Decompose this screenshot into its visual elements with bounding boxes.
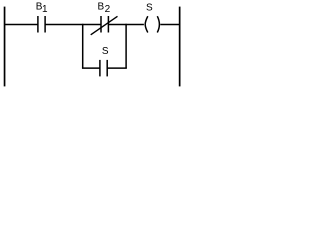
wire: coil S to right rail	[160, 24, 179, 26]
label B2	[98, 2, 111, 15]
branch wire: left vertical to contact S	[82, 67, 100, 69]
contact S right bar	[106, 60, 108, 77]
contact S left bar	[99, 60, 101, 77]
contact B2 left bar	[100, 16, 102, 33]
label B1	[36, 2, 48, 15]
left power rail	[4, 7, 6, 87]
contact B2 normally-closed slash	[91, 16, 118, 35]
branch left vertical wire	[82, 24, 84, 68]
svg-text:1: 1	[42, 4, 48, 15]
wire: contact B1 to contact B2 (through branch node)	[45, 24, 101, 26]
svg-text:S: S	[146, 3, 153, 14]
svg-text:B: B	[98, 2, 105, 13]
svg-text:S: S	[102, 46, 109, 57]
svg-text:2: 2	[105, 4, 111, 15]
wire: left rail to contact B1	[5, 24, 38, 26]
contact B2 right bar	[107, 16, 109, 33]
branch wire: contact S to right vertical	[107, 67, 127, 69]
wire: contact B2 to coil S (through branch node)	[108, 24, 143, 26]
contact B1 left bar	[37, 16, 39, 33]
coil S left parenthesis	[145, 16, 148, 32]
right power rail	[179, 7, 181, 87]
coil S right parenthesis	[157, 16, 159, 32]
branch right vertical wire	[125, 24, 127, 68]
contact B1 right bar	[44, 16, 46, 33]
